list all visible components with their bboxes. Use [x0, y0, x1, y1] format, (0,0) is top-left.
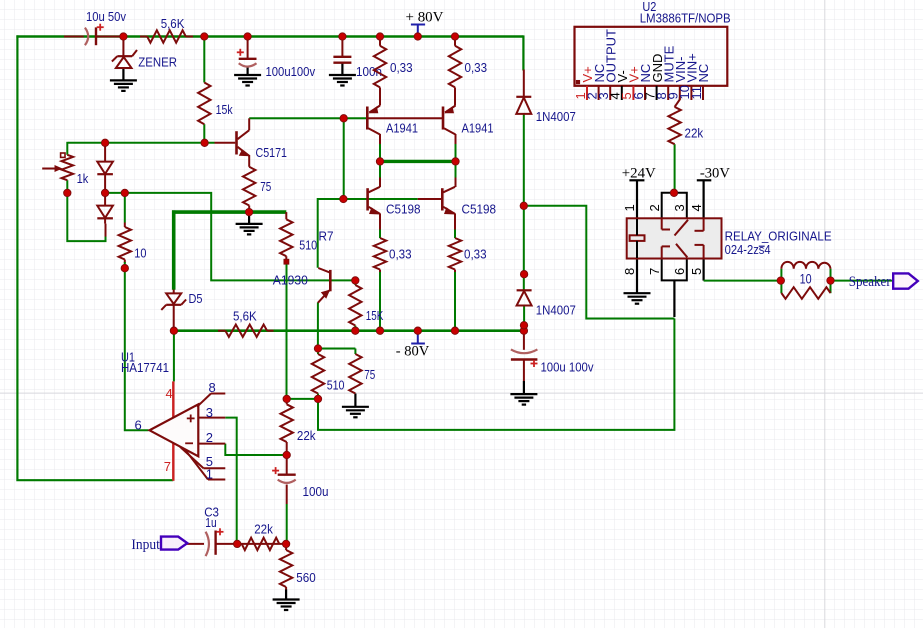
svg-text:HA17741: HA17741	[121, 360, 169, 375]
resistor 10 speaker	[781, 270, 830, 299]
wire 15k top	[203, 37, 205, 83]
transistor Q3 A1941	[443, 106, 494, 136]
wire 100n leads	[341, 37, 343, 76]
op-amp pin 6 label	[135, 418, 142, 433]
svg-text:R7: R7	[319, 228, 334, 243]
wire emitter bus thick	[172, 210, 286, 289]
wire 5,6K top stubs	[140, 36, 193, 38]
IC U2 pin stubs	[587, 86, 703, 100]
wire C5198a collector	[379, 160, 381, 187]
svg-text:22k: 22k	[685, 126, 704, 141]
wire C5198b collector	[455, 160, 457, 187]
svg-text:10u 50v: 10u 50v	[86, 9, 126, 24]
svg-text:C5198: C5198	[462, 201, 497, 216]
wire C5198 base to A1930 collector	[317, 198, 319, 268]
svg-text:C5171: C5171	[256, 145, 288, 160]
power +24V	[622, 165, 656, 181]
resistor 510 b	[312, 354, 345, 394]
svg-text:- 80V: - 80V	[396, 343, 430, 359]
svg-text:100u 100v: 100u 100v	[541, 360, 594, 375]
IC U2 pin names	[580, 29, 711, 83]
wire feedback run to relay	[318, 319, 674, 430]
op-amp pin 2	[198, 430, 225, 445]
ground 100u100v-b	[510, 394, 537, 405]
wire 100u stubs	[286, 455, 288, 544]
diode D2	[97, 193, 113, 224]
svg-text:15K: 15K	[366, 308, 384, 323]
svg-text:5,6K: 5,6K	[233, 308, 257, 323]
resistor 10	[119, 227, 147, 261]
wire A1941 base to C5198 base drop	[343, 118, 345, 199]
relay pin numbers top	[622, 204, 704, 211]
capacitor C3 1u	[204, 504, 223, 556]
svg-text:6: 6	[135, 418, 142, 433]
inductor 10	[781, 262, 830, 269]
resistor 0,33 d	[449, 238, 487, 270]
svg-text:024-2zs4: 024-2zs4	[725, 242, 771, 257]
relay contact lower	[662, 244, 704, 259]
wire A1941a collector drop	[379, 134, 381, 161]
transistor Q4 C5198	[368, 187, 421, 217]
relay contact upper	[662, 218, 704, 235]
transistor Q1 C5171	[237, 118, 288, 167]
port Input	[131, 537, 187, 553]
relay pin numbers bottom	[622, 268, 704, 275]
svg-text:22k: 22k	[297, 428, 316, 443]
wire 75b bottom to ground	[354, 394, 356, 407]
diode 1N4007 a	[516, 97, 576, 124]
resistor 510 a	[280, 212, 317, 264]
wire 10ohm bottom stub	[124, 260, 126, 269]
svg-text:A1930: A1930	[273, 272, 308, 287]
wire left feedback rail	[17, 35, 173, 480]
IC U2 labels	[640, 0, 731, 26]
svg-text:2: 2	[647, 204, 662, 211]
wire relay pins 2-3 link	[662, 193, 687, 219]
wire 15k bottom to C5171 base node	[203, 124, 205, 143]
wire relay pin5 to speaker net	[704, 259, 781, 281]
wire A1941b collector drop	[455, 134, 457, 161]
capacitor 100u 100v	[511, 349, 594, 374]
svg-text:510: 510	[299, 237, 317, 252]
ground zener	[110, 80, 137, 91]
wire input line	[187, 543, 287, 545]
svg-text:8: 8	[622, 268, 637, 275]
wire output node down to op-amp pin6	[125, 268, 149, 430]
svg-text:75: 75	[364, 367, 375, 382]
resistor 0,33 b	[449, 46, 487, 88]
resistor 75 b	[349, 354, 375, 394]
transistor Q6 A1930	[273, 268, 331, 303]
power +80V	[406, 10, 444, 37]
svg-text:8: 8	[209, 380, 216, 395]
svg-text:510: 510	[327, 378, 345, 393]
power -80V	[396, 331, 430, 360]
svg-text:4: 4	[689, 204, 704, 211]
svg-text:1N4007: 1N4007	[536, 303, 576, 318]
svg-text:10: 10	[800, 270, 812, 286]
port Speaker	[849, 273, 918, 289]
svg-text:5: 5	[689, 268, 704, 275]
relay coil	[630, 219, 645, 258]
wire C5171 collector to A1941 base	[249, 117, 366, 119]
capacitor 100u	[272, 467, 328, 499]
svg-text:+24V: +24V	[622, 165, 656, 181]
op-amp pin 5	[180, 447, 225, 469]
svg-text:15k: 15k	[216, 102, 233, 117]
svg-text:7: 7	[647, 268, 662, 275]
svg-text:+ 80V: + 80V	[406, 10, 444, 26]
IC U2 pin numbers	[573, 85, 704, 99]
wire C5198b emitter to 0,33	[454, 214, 456, 331]
wire 560 stubs	[285, 544, 287, 600]
svg-text:0,33: 0,33	[389, 246, 412, 261]
svg-text:22k: 22k	[254, 521, 273, 536]
wire 510b bottom stub	[317, 394, 319, 399]
wire +80V top rail	[16, 35, 523, 70]
svg-text:3: 3	[672, 204, 687, 211]
op-amp pin 3	[198, 405, 225, 420]
wire 22kb top link	[287, 398, 318, 400]
svg-text:3: 3	[206, 405, 213, 420]
resistor 0,33 c	[374, 238, 412, 270]
relay body	[627, 218, 722, 258]
wire -80V rail	[174, 329, 524, 332]
svg-text:C5198: C5198	[386, 201, 421, 216]
potentiometer 1k	[42, 153, 89, 186]
wire 22k chip pin9	[675, 97, 680, 193]
transistor Q5 C5198	[442, 187, 496, 217]
node R7 label	[319, 228, 334, 243]
wire A1930 emitter down	[317, 303, 319, 350]
svg-text:1: 1	[622, 204, 637, 211]
resistor 15k	[198, 83, 233, 125]
wire pot bottom to D2 anode	[67, 193, 105, 241]
wire node D1-D2 to A1930 base	[105, 193, 355, 281]
capacitor 10u 50v	[85, 9, 127, 45]
svg-text:Input: Input	[131, 537, 160, 553]
op-amp pin 4 label	[166, 386, 173, 401]
wire speaker link	[831, 280, 894, 282]
wire op-amp pin2 to 22kb bottom	[225, 444, 286, 455]
svg-text:100u100v: 100u100v	[266, 64, 316, 79]
wire C5198a emitter to 0,33	[379, 214, 381, 331]
wire 510b/75b top link	[318, 349, 355, 355]
ground 100u100v-a	[234, 75, 261, 86]
svg-text:7: 7	[164, 459, 171, 474]
resistor 0,33 a	[374, 46, 413, 88]
wire 100u100v-b leads	[523, 331, 525, 394]
ground relay coil	[624, 293, 651, 304]
resistor 15K b	[349, 285, 383, 326]
resistor 22k input	[242, 521, 280, 550]
svg-text:10: 10	[134, 246, 146, 261]
diode ZENER	[112, 50, 177, 69]
svg-text:1N4007: 1N4007	[536, 109, 576, 124]
svg-text:6: 6	[672, 268, 687, 275]
svg-text:4: 4	[166, 386, 173, 401]
wire C5171 base horizontal	[68, 142, 235, 144]
svg-text:11: 11	[689, 86, 704, 100]
wire op-amp pin3 to input node	[225, 418, 236, 544]
op-amp U1 HA17741 labels	[121, 350, 169, 375]
wire 10ohm top stub	[124, 193, 126, 227]
wire +24V rail drop	[636, 180, 638, 219]
svg-text:NC: NC	[696, 64, 711, 83]
resistor 75 a	[243, 167, 271, 212]
wire output to relay contact	[524, 206, 675, 319]
svg-text:100u: 100u	[303, 484, 329, 499]
op-amp pin 8	[197, 380, 225, 407]
wire -30V rail drop	[702, 180, 704, 219]
wire parallel RL frame	[781, 269, 830, 294]
wire zener stub	[122, 37, 124, 81]
wire thick collector bar	[379, 160, 458, 163]
power -30V	[697, 165, 730, 181]
ground emitter bus	[236, 212, 263, 234]
wire 1N4007b stubs	[523, 206, 525, 331]
svg-text:75: 75	[260, 179, 271, 194]
resistor 5,6K top	[147, 16, 186, 43]
capacitor 100u100v	[237, 49, 316, 79]
wire 0,33a stubs	[379, 37, 381, 106]
diode D5	[161, 291, 202, 310]
wire 10u50v leads	[64, 36, 123, 38]
svg-text:ZENER: ZENER	[138, 54, 177, 69]
IC U2 body	[575, 27, 728, 86]
capacitor 100n	[333, 57, 382, 79]
wire relay pins 7-6 link	[662, 259, 687, 318]
ground 75b	[342, 407, 369, 418]
wire C5198 base horizontal	[318, 198, 442, 200]
svg-text:1: 1	[206, 467, 213, 482]
resistor 22k mute	[668, 107, 703, 144]
op-amp U1 triangle	[150, 404, 199, 456]
wire 1N4007a stubs	[523, 70, 525, 206]
wire 0,33b stubs	[454, 37, 456, 106]
svg-text:A1941: A1941	[462, 121, 494, 136]
wire relay pin8 to ground	[636, 259, 638, 294]
svg-text:5,6K: 5,6K	[161, 16, 185, 31]
wire op-amp pin4 column	[172, 331, 175, 418]
ground 100n	[329, 75, 356, 86]
svg-text:560: 560	[296, 570, 315, 585]
resistor 22k b	[281, 399, 317, 455]
svg-text:LM3886TF/NOPB: LM3886TF/NOPB	[640, 11, 731, 26]
wire pot top drop	[66, 142, 68, 155]
resistor 560	[280, 550, 316, 587]
svg-text:0,33: 0,33	[465, 60, 488, 75]
svg-text:Speaker: Speaker	[849, 274, 891, 290]
svg-text:1u: 1u	[205, 515, 216, 530]
wire D5 stubs	[173, 290, 175, 331]
wire 100u100v-a leads	[247, 37, 249, 76]
diode D1	[97, 143, 113, 193]
svg-text:A1941: A1941	[386, 121, 418, 136]
wire 5,6K mid stubs	[218, 330, 274, 332]
svg-text:0,33: 0,33	[390, 60, 413, 75]
svg-text:1k: 1k	[77, 171, 89, 186]
svg-text:-30V: -30V	[700, 165, 730, 181]
wire A1941 base link	[368, 117, 442, 119]
relay labels	[725, 228, 832, 256]
svg-text:D5: D5	[189, 291, 203, 306]
wire op-amp pin7 column	[172, 443, 174, 481]
ground 560	[273, 600, 300, 611]
transistor Q2 A1941	[367, 106, 418, 136]
svg-text:2: 2	[206, 430, 213, 445]
diode 1N4007 b	[517, 290, 576, 317]
resistor 5,6K mid	[225, 308, 267, 337]
wire 510a bottom to 22kb	[286, 262, 288, 399]
wire pot bottom stub	[66, 180, 68, 193]
wire 15Kb stubs	[354, 280, 356, 330]
svg-text:0,33: 0,33	[464, 246, 487, 261]
op-amp pin 7 label	[164, 459, 171, 474]
op-amp pin 1	[185, 449, 226, 481]
